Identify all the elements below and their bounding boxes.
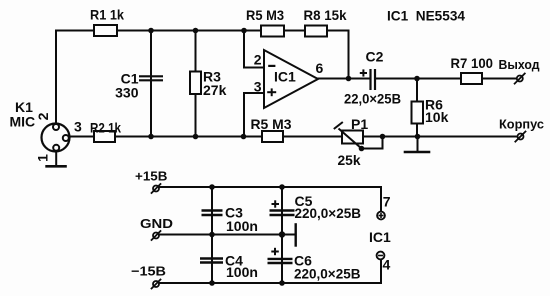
svg-text:100n: 100n: [226, 264, 258, 280]
node at R3 bottom: [193, 134, 199, 140]
capacitor C2: [371, 69, 376, 90]
svg-text:P1: P1: [351, 116, 368, 132]
chassis terminal Korpus: [518, 134, 524, 140]
op-amp plus input mark: [267, 91, 276, 93]
node at R6/chassis bus: [415, 134, 421, 140]
svg-text:R5 M3: R5 M3: [246, 7, 284, 23]
capacitor C4: [200, 259, 223, 263]
svg-text:R7 100: R7 100: [451, 55, 494, 71]
wire: -15V bus: [159, 260, 381, 284]
node at C1 top: [148, 28, 154, 34]
node at pin3 branch: [241, 134, 247, 140]
resistor R5 (bottom): [262, 131, 283, 142]
node dots upper section: [148, 28, 420, 152]
capacitor C5: [270, 211, 295, 216]
resistor R3: [190, 72, 201, 95]
svg-text:22,0×25В: 22,0×25В: [344, 91, 401, 107]
capacitor C1: [139, 76, 163, 80]
wire: K1 pin1 to chassis: [55, 151, 57, 165]
wire: R7 to output terminal: [482, 78, 517, 80]
resistor R8: [305, 26, 327, 37]
op-amp minus input mark: [268, 65, 275, 67]
resistor R2: [94, 131, 115, 142]
svg-text:+15В: +15В: [135, 169, 167, 184]
wire: ground stub under R6: [417, 137, 419, 152]
wire: GND bus: [159, 234, 295, 236]
wire: pin 2 branch of IC1: [244, 31, 264, 68]
svg-text:2: 2: [35, 112, 51, 120]
op-amp U1 IC1: [264, 50, 318, 108]
svg-text:IC1 NE5534: IC1 NE5534: [387, 8, 465, 24]
power node dots: [209, 184, 285, 286]
svg-text:C2: C2: [366, 49, 384, 65]
+15V terminal: [153, 186, 159, 192]
svg-text:4: 4: [383, 257, 391, 273]
svg-text:Выход: Выход: [499, 57, 541, 72]
svg-text:MIC: MIC: [10, 114, 36, 130]
K1 pin 3 contact: [63, 135, 69, 141]
svg-text:3: 3: [74, 119, 82, 135]
resistor R1: [94, 25, 117, 36]
resistor R5 (top): [261, 26, 284, 37]
wire: +15V bus: [159, 187, 381, 212]
node at C1 bottom: [148, 134, 154, 140]
power section: [159, 187, 381, 283]
svg-text:2: 2: [254, 52, 262, 68]
resistor R6: [412, 102, 424, 124]
ground chassis bar: [405, 151, 429, 154]
svg-text:220,0×25В: 220,0×25В: [295, 205, 362, 221]
wire: R3 branch: [195, 31, 197, 137]
wire: C3 C4 chain: [211, 187, 213, 283]
svg-text:100n: 100n: [226, 218, 258, 234]
node at feedback/pin2: [241, 28, 247, 34]
wire: P1 wiper: [362, 137, 383, 149]
IC1 pin 7 power terminal: [377, 212, 385, 220]
wire: bottom bus: [69, 136, 518, 138]
chassis bar at K1 pin 1: [45, 165, 67, 168]
wire: C5 C6 chain: [281, 187, 283, 283]
node C3 GND: [209, 232, 215, 238]
node C3 top: [209, 184, 215, 190]
trimmer P1: [342, 131, 363, 144]
node C6 bottom: [279, 280, 285, 286]
output terminal Vyhod: [517, 76, 523, 82]
wire: R6 branch: [416, 79, 418, 137]
node C5 top: [279, 184, 285, 190]
svg-text:10k: 10k: [425, 109, 449, 125]
svg-text:27k: 27k: [203, 82, 227, 98]
GND terminal: [153, 233, 159, 239]
C6 plus mark: [271, 251, 279, 253]
capacitor C3: [202, 211, 223, 216]
chassis bar at GND: [295, 224, 297, 245]
node at C2/R6: [414, 76, 420, 82]
wire: pin2 vertical + top bus: [56, 31, 244, 125]
svg-text:R5 M3: R5 M3: [251, 116, 292, 132]
svg-text:6: 6: [316, 60, 324, 76]
svg-text:GND: GND: [140, 216, 173, 231]
svg-text:R2 1k: R2 1k: [90, 120, 121, 136]
node at wiper/bus: [380, 134, 386, 140]
K1 pin 2 contact: [53, 124, 59, 130]
C2 plus mark: [360, 72, 367, 74]
wire: output of IC1 to C2: [318, 78, 370, 80]
svg-text:−15В: −15В: [131, 264, 166, 279]
connector K1 body: [42, 124, 70, 152]
svg-text:R1 1k: R1 1k: [90, 7, 124, 23]
svg-text:IC1: IC1: [369, 229, 391, 245]
svg-text:220,0×25В: 220,0×25В: [294, 266, 361, 282]
node at feedback/output: [346, 76, 352, 82]
node at R3 top: [193, 28, 199, 34]
svg-text:Корпус: Корпус: [499, 117, 544, 132]
wire: C1 branch: [150, 31, 152, 137]
-15V terminal: [153, 281, 159, 287]
IC1 pin 4 power terminal: [377, 252, 385, 260]
wire: pin 3 branch of IC1: [244, 93, 264, 137]
node C4 bottom: [209, 280, 215, 286]
capacitor C6: [268, 259, 293, 263]
svg-text:7: 7: [383, 194, 391, 210]
svg-text:R8 15k: R8 15k: [304, 7, 347, 23]
K1 pin 1 contact: [53, 145, 59, 151]
svg-text:IC1: IC1: [274, 69, 296, 85]
node at P1 wiper: [359, 146, 365, 152]
resistor R7: [461, 73, 482, 84]
svg-text:25k: 25k: [338, 152, 361, 168]
node C5 GND: [279, 231, 285, 237]
svg-text:330: 330: [115, 85, 139, 101]
wire: C2 to R7: [376, 78, 461, 80]
C5 plus mark: [272, 203, 280, 205]
svg-text:1: 1: [35, 154, 51, 162]
svg-text:3: 3: [254, 79, 262, 95]
wire: top bus feedback segment: [244, 31, 349, 79]
